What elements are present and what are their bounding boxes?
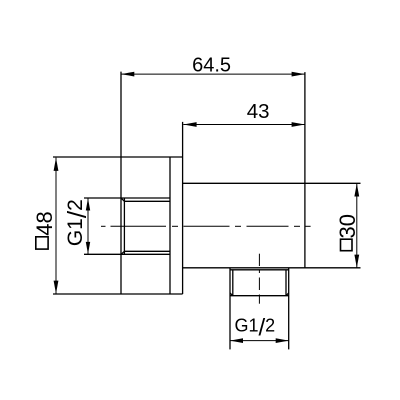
svg-text:30: 30: [335, 214, 360, 238]
svg-text:43: 43: [247, 100, 270, 123]
svg-text:48: 48: [32, 211, 57, 235]
svg-text:64.5: 64.5: [192, 55, 231, 77]
